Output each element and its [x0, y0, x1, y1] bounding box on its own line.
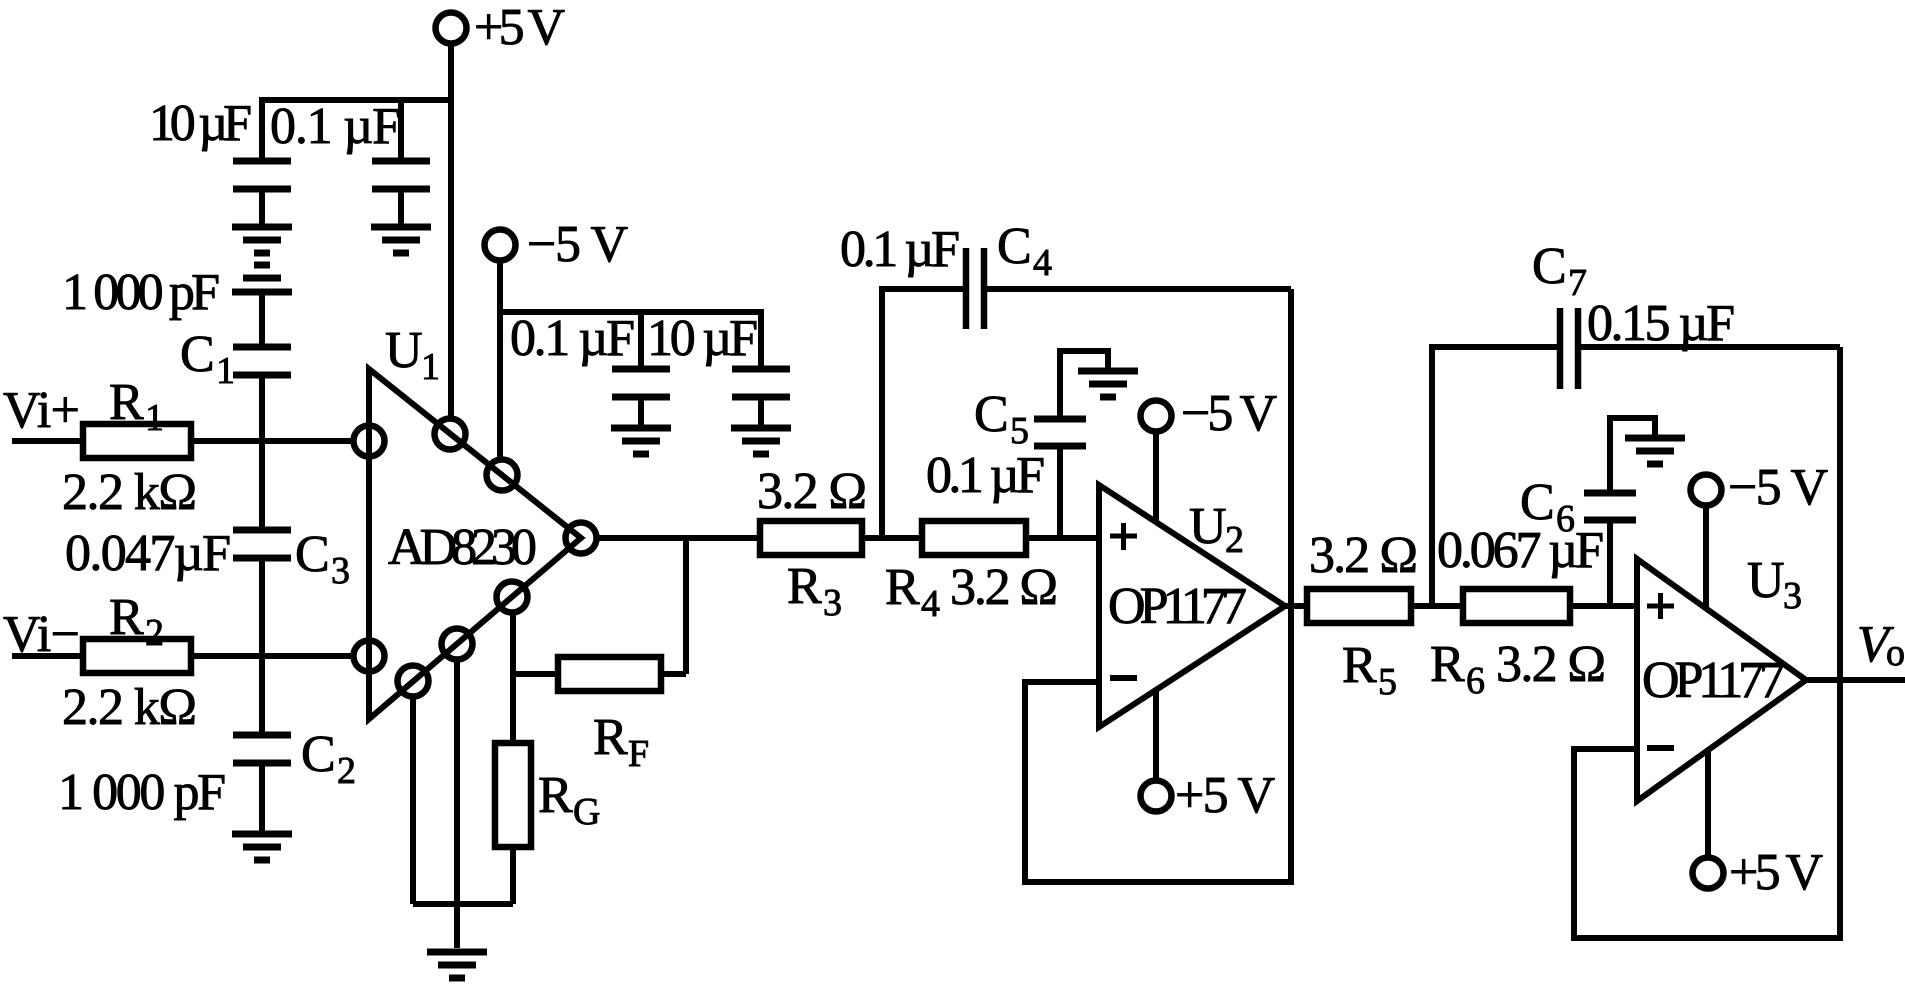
svg-text:2: 2 — [337, 750, 356, 792]
label C6 — [1520, 474, 1575, 540]
wire R5 to R6 — [1411, 603, 1463, 609]
svg-text:0.1 µF: 0.1 µF — [926, 447, 1045, 504]
label R6 3.2 Ohm — [1430, 636, 1606, 702]
svg-text:G: G — [573, 791, 600, 833]
wire C5 top lead flag — [1060, 351, 1108, 416]
pin circle U1 output — [566, 523, 597, 554]
op-amp U2 OP1177 triangle — [1099, 485, 1285, 727]
ground (under C2) — [232, 834, 292, 860]
wire output tee down to RF — [683, 538, 689, 674]
wire U3 feedback loop — [1574, 347, 1840, 938]
resistor R2 2.2k — [83, 639, 191, 673]
svg-text:R: R — [593, 709, 628, 766]
wire C6 top lead flag — [1610, 418, 1655, 490]
svg-text:5: 5 — [1010, 410, 1029, 452]
svg-text:0.1 µF: 0.1 µF — [510, 310, 635, 367]
svg-text:1: 1 — [216, 350, 235, 392]
capacitor C5 0.1uF — [1034, 419, 1086, 446]
wire R1 to U1 input — [191, 438, 353, 444]
svg-text:0.067 µF: 0.067 µF — [1437, 522, 1604, 579]
svg-text:2.2 kΩ: 2.2 kΩ — [62, 679, 197, 736]
wire RF right lead — [661, 671, 686, 677]
pin circle U1 in- — [354, 641, 385, 672]
ground (inverted, above C1) — [232, 265, 292, 292]
label U1 — [385, 322, 440, 388]
wire +5V to U3 — [1705, 751, 1711, 857]
ground (under 10uF) — [232, 227, 292, 253]
wire C6 bottom lead — [1607, 523, 1613, 606]
svg-text:+5 V: +5 V — [1175, 767, 1275, 824]
label R2 — [109, 589, 164, 654]
capacitor 10uF (mid bypass) — [732, 369, 790, 425]
svg-text:Vi+: Vi+ — [3, 382, 80, 439]
svg-text:3: 3 — [331, 550, 350, 592]
ground (under top 0.1uF) — [371, 227, 431, 253]
op-amp U1 AD8230 triangle — [369, 369, 581, 719]
resistor R1 2.2k — [83, 424, 191, 458]
svg-text:−5 V: −5 V — [527, 216, 628, 273]
svg-text:10 µF: 10 µF — [149, 95, 252, 152]
svg-text:1 000 pF: 1 000 pF — [62, 264, 220, 321]
svg-text:4: 4 — [921, 583, 940, 625]
capacitor C3 0.047uF — [233, 530, 291, 558]
svg-text:3.2 Ω: 3.2 Ω — [757, 463, 867, 520]
svg-text:R: R — [885, 559, 920, 616]
svg-text:−5 V: −5 V — [1181, 385, 1277, 442]
svg-text:R: R — [787, 558, 822, 615]
svg-text:0.1 µF: 0.1 µF — [840, 221, 960, 278]
capacitor C2 1000pF — [233, 735, 291, 763]
label C1 — [180, 326, 235, 392]
pin circle U1 -5V — [487, 460, 518, 491]
svg-text:R: R — [109, 374, 144, 431]
wire Vi+ lead — [12, 438, 83, 444]
svg-text:R: R — [109, 589, 144, 646]
wire top-left horizontal bus y=100 — [262, 100, 451, 158]
svg-text:−5 V: −5 V — [1728, 459, 1828, 516]
svg-text:C: C — [1532, 238, 1567, 295]
label + (U2) — [1110, 523, 1137, 550]
wire +5V vertical to U1 pin — [448, 44, 454, 418]
wire C5 bottom lead — [1057, 449, 1063, 538]
svg-text:+5 V: +5 V — [1729, 844, 1823, 901]
label + (U3) — [1647, 593, 1674, 619]
svg-text:C: C — [295, 526, 330, 583]
label C2 — [301, 726, 356, 792]
resistor RG — [495, 743, 531, 847]
svg-text:3.2 Ω: 3.2 Ω — [950, 559, 1058, 616]
wire U1 output to R3 — [597, 535, 760, 541]
svg-text:6: 6 — [1466, 660, 1485, 702]
label U3 — [1747, 552, 1802, 617]
capacitor 0.1uF (mid bypass) — [612, 369, 670, 425]
label R1 — [109, 374, 164, 439]
resistor RF — [558, 657, 661, 691]
svg-text:C: C — [180, 326, 215, 383]
resistor R4 — [922, 521, 1026, 555]
label R3 — [787, 558, 842, 624]
wire -5V vertical to U1 pin — [497, 261, 503, 459]
capacitor 10uF (top-left bypass) — [233, 161, 291, 224]
ground (under mid 0.1uF) — [611, 428, 671, 454]
label U2 — [1189, 498, 1244, 561]
ground (C5) — [1078, 371, 1138, 397]
svg-text:o: o — [1886, 632, 1905, 674]
svg-text:+5 V: +5 V — [474, 0, 565, 56]
label R5 — [1342, 637, 1397, 703]
wire U2 feedback loop — [1025, 289, 1291, 882]
svg-text:OP1177: OP1177 — [1108, 578, 1247, 635]
wire R2 to U1 input — [191, 653, 353, 659]
wire inverted-ground to C1 — [259, 295, 265, 344]
wire C7 right to feedback rail — [1581, 344, 1840, 350]
svg-text:2: 2 — [145, 612, 164, 654]
svg-text:R: R — [1430, 636, 1465, 693]
svg-text:AD8230: AD8230 — [388, 519, 537, 576]
wire Vi- lead — [12, 653, 83, 659]
wire U1 gnd pin down — [410, 695, 416, 904]
resistor R3 — [760, 521, 862, 555]
terminal -5V (U3) — [1691, 459, 1829, 516]
svg-text:1 000 pF: 1 000 pF — [58, 764, 226, 821]
resistor R6 — [1463, 589, 1570, 623]
pin circle U1 gnd — [398, 666, 429, 697]
svg-text:R: R — [1342, 637, 1377, 694]
capacitor C1 1000pF — [233, 347, 291, 375]
terminal +5V (U3) — [1693, 844, 1824, 901]
pin circle U1 in+ — [354, 426, 385, 457]
svg-text:OP1177: OP1177 — [1642, 652, 1785, 709]
capacitor C6 0.067uF — [1584, 493, 1636, 520]
wire -5V horizontal bus y=312 — [500, 312, 761, 366]
node Vo label — [1857, 616, 1905, 674]
pin circle U1 +5V — [435, 419, 466, 450]
op-amp U3 OP1177 triangle — [1637, 559, 1806, 801]
svg-text:0.15 µF: 0.15 µF — [1587, 295, 1735, 352]
wire C1 down through Vi+ node to C3 — [259, 378, 265, 527]
svg-text:3: 3 — [1783, 575, 1802, 617]
label C7 — [1532, 238, 1587, 304]
label RG — [538, 767, 600, 833]
svg-text:1: 1 — [145, 397, 164, 439]
wire C4 left branch — [882, 289, 963, 538]
label - (U2) — [1110, 675, 1137, 681]
wire RG bottom lead — [510, 847, 516, 904]
svg-text:3.2 Ω: 3.2 Ω — [1496, 636, 1606, 693]
wire R4 to U2 + input — [1026, 535, 1099, 541]
svg-text:4: 4 — [1033, 242, 1052, 284]
label C5 — [974, 386, 1029, 452]
wire R6 to U3 + input — [1570, 603, 1637, 609]
svg-text:2: 2 — [1225, 519, 1244, 561]
ground (U1 bottom) — [427, 952, 487, 978]
wire U1 ref pin down to ground — [454, 658, 460, 948]
wire 0.1uF top lead — [398, 100, 404, 161]
wire U1 feedback pin down to RG — [510, 611, 516, 743]
terminal +5V (U2) — [1141, 767, 1276, 824]
capacitor 0.1uF (top-left bypass) — [372, 161, 430, 224]
svg-text:1: 1 — [421, 346, 440, 388]
svg-text:7: 7 — [1568, 262, 1587, 304]
capacitor C4 0.1uF — [966, 248, 984, 329]
label R4 3.2 Ohm — [885, 559, 1058, 625]
svg-text:2.2 kΩ: 2.2 kΩ — [62, 464, 197, 521]
svg-text:5: 5 — [1378, 661, 1397, 703]
terminal -5V (U2) — [1141, 385, 1278, 442]
svg-text:C: C — [974, 386, 1009, 443]
wire bottom horizontal y=904 — [413, 901, 513, 907]
wire +5V to U2 — [1153, 690, 1159, 780]
wire C7 left branch — [1432, 347, 1557, 606]
wire U3 output Vo — [1806, 677, 1905, 683]
terminal +5V (top) — [436, 0, 566, 56]
svg-text:U: U — [385, 322, 423, 379]
svg-text:F: F — [628, 733, 649, 775]
label C4 — [997, 218, 1052, 284]
terminal -5V (U1) — [485, 216, 629, 273]
svg-text:C: C — [997, 218, 1032, 275]
wire RF left lead — [513, 671, 558, 677]
wire C3 down through Vi- node to C2 — [259, 561, 265, 732]
ground (C6) — [1625, 438, 1685, 464]
wire U2 output to R5 — [1285, 603, 1307, 609]
wire R3 to R4 — [862, 535, 922, 541]
svg-text:0.047µF: 0.047µF — [65, 525, 231, 582]
wire -5V to U3 — [1703, 506, 1709, 608]
wire C2 to ground — [259, 766, 265, 831]
wire C4 right to feedback rail — [987, 286, 1291, 292]
wire -5V to U2 — [1153, 432, 1159, 522]
svg-text:0.1 µF: 0.1 µF — [270, 98, 401, 155]
svg-text:3: 3 — [823, 582, 842, 624]
label C3 — [295, 526, 350, 592]
svg-text:R: R — [538, 767, 573, 824]
ground (under mid 10uF) — [731, 428, 791, 454]
svg-text:U: U — [1189, 498, 1227, 555]
capacitor C7 0.15uF — [1560, 308, 1578, 389]
wire mid 0.1uF lead — [638, 312, 644, 369]
label RF — [593, 709, 649, 775]
label - (U3) — [1647, 745, 1674, 751]
pin circle U1 ref — [442, 629, 473, 660]
svg-text:C: C — [301, 726, 336, 783]
svg-text:10 µF: 10 µF — [647, 310, 758, 367]
pin circle U1 feedback — [497, 582, 528, 613]
resistor R5 — [1307, 589, 1411, 623]
svg-text:U: U — [1747, 552, 1785, 609]
svg-text:3.2 Ω: 3.2 Ω — [1309, 527, 1418, 584]
